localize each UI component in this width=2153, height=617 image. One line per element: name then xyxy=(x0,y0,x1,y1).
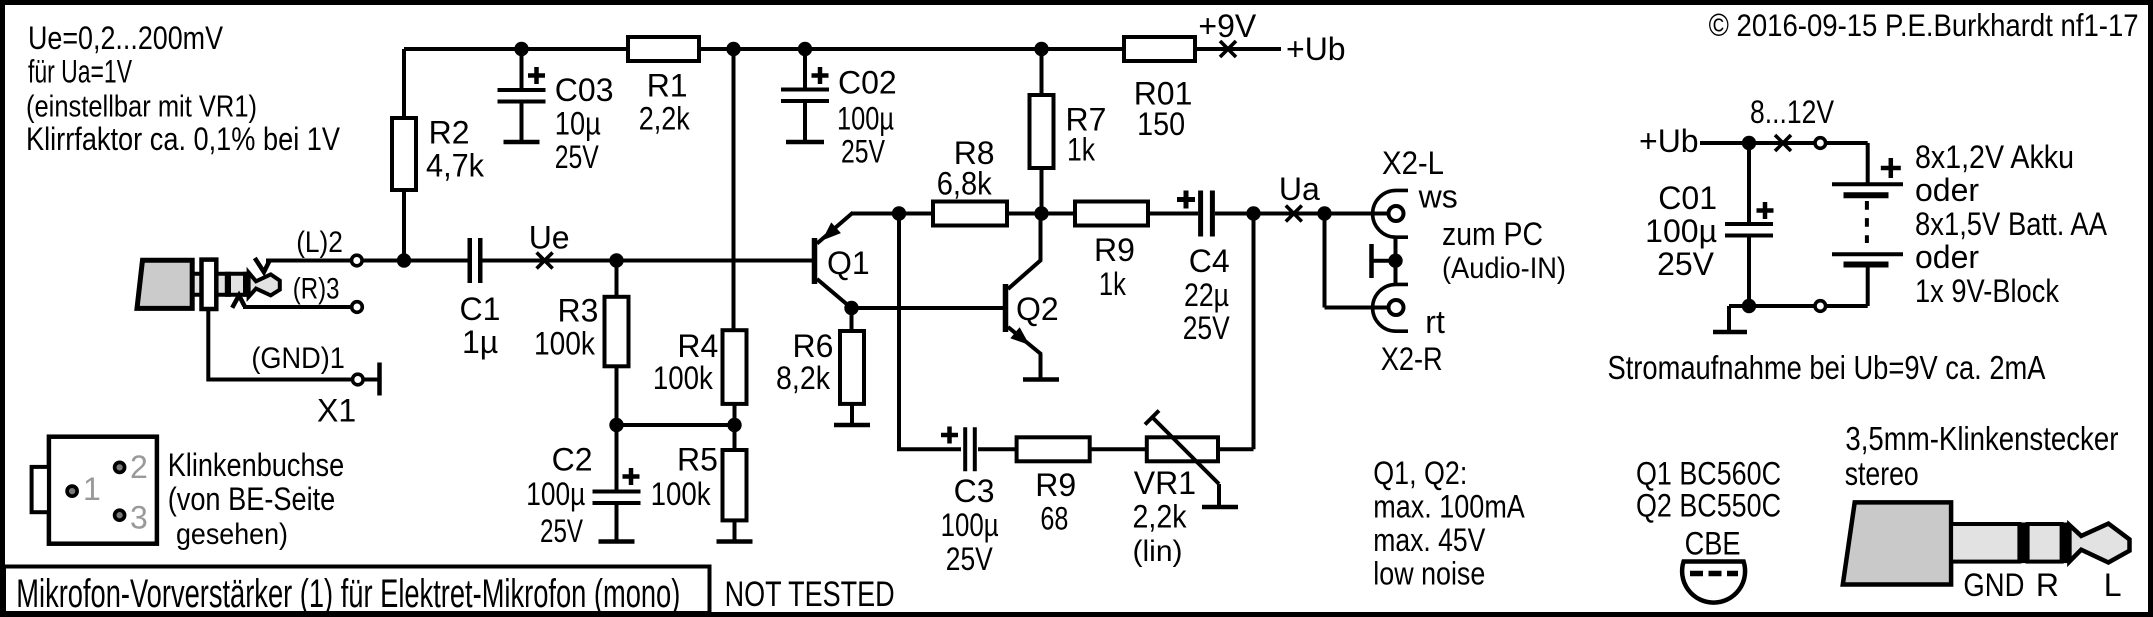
svg-text:Mikrofon-Vorverstärker (1) für: Mikrofon-Vorverstärker (1) für Elektret-… xyxy=(16,572,680,616)
svg-text:max. 45V: max. 45V xyxy=(1373,522,1486,558)
svg-text:Stromaufnahme bei Ub=9V ca. 2m: Stromaufnahme bei Ub=9V ca. 2mA xyxy=(1608,349,2046,386)
svg-text:ws: ws xyxy=(1418,179,1458,215)
svg-text:25V: 25V xyxy=(540,513,583,549)
svg-text:3,5mm-Klinkenstecker: 3,5mm-Klinkenstecker xyxy=(1845,420,2118,457)
svg-text:Ue=0,2...200mV: Ue=0,2...200mV xyxy=(28,20,224,56)
svg-text:2: 2 xyxy=(130,449,148,485)
svg-text:X2-R: X2-R xyxy=(1381,341,1443,377)
svg-text:(R)3: (R)3 xyxy=(293,273,340,306)
svg-text:8x1,5V Batt. AA: 8x1,5V Batt. AA xyxy=(1915,206,2108,242)
svg-text:Q2: Q2 xyxy=(1016,291,1059,327)
svg-text:3: 3 xyxy=(130,500,148,536)
svg-text:(GND)1: (GND)1 xyxy=(251,342,345,375)
svg-text:1x 9V-Block: 1x 9V-Block xyxy=(1915,273,2060,309)
svg-text:(von BE-Seite: (von BE-Seite xyxy=(168,481,336,517)
svg-text:X1: X1 xyxy=(317,393,356,429)
svg-text:1: 1 xyxy=(83,471,101,507)
svg-text:25V: 25V xyxy=(555,139,600,175)
svg-text:Q1 BC560C: Q1 BC560C xyxy=(1636,455,1781,491)
svg-text:zum PC: zum PC xyxy=(1442,216,1543,252)
svg-text:25V: 25V xyxy=(1657,246,1715,282)
svg-text:rt: rt xyxy=(1425,304,1445,340)
svg-text:2,2k: 2,2k xyxy=(1133,499,1188,535)
svg-text:+9V: +9V xyxy=(1198,8,1256,44)
svg-text:X2-L: X2-L xyxy=(1382,145,1444,181)
svg-text:100µ: 100µ xyxy=(526,476,585,512)
svg-text:+Ub: +Ub xyxy=(1286,31,1346,67)
svg-text:C2: C2 xyxy=(552,442,593,478)
svg-text:R9: R9 xyxy=(1035,467,1076,503)
svg-text:100k: 100k xyxy=(651,476,712,512)
svg-text:C4: C4 xyxy=(1189,243,1230,279)
svg-text:25V: 25V xyxy=(841,134,886,170)
svg-text:8...12V: 8...12V xyxy=(1750,94,1835,130)
svg-text:gesehen): gesehen) xyxy=(176,518,288,551)
svg-text:Ua: Ua xyxy=(1279,171,1320,207)
svg-text:8,2k: 8,2k xyxy=(776,360,831,396)
svg-text:NOT TESTED: NOT TESTED xyxy=(725,575,895,614)
svg-text:(L)2: (L)2 xyxy=(296,226,343,259)
svg-text:L: L xyxy=(2104,567,2122,603)
svg-text:10µ: 10µ xyxy=(555,105,601,141)
svg-text:C01: C01 xyxy=(1658,180,1717,216)
svg-text:25V: 25V xyxy=(946,541,994,577)
svg-text:C02: C02 xyxy=(838,65,897,101)
svg-text:Ue: Ue xyxy=(529,220,570,256)
svg-text:© 2016-09-15 P.E.Burkhardt nf1: © 2016-09-15 P.E.Burkhardt nf1-17 xyxy=(1709,7,2139,43)
svg-text:R: R xyxy=(2036,567,2059,603)
svg-text:1k: 1k xyxy=(1067,132,1096,168)
svg-text:4,7k: 4,7k xyxy=(426,148,485,184)
svg-text:stereo: stereo xyxy=(1845,455,1919,492)
svg-text:R4: R4 xyxy=(677,328,718,364)
svg-text:C1: C1 xyxy=(460,291,501,327)
svg-text:oder: oder xyxy=(1915,239,1979,275)
svg-text:2,2k: 2,2k xyxy=(639,101,691,137)
svg-text:Q1: Q1 xyxy=(827,245,870,281)
svg-text:Q1, Q2:: Q1, Q2: xyxy=(1373,455,1467,491)
svg-text:oder: oder xyxy=(1915,172,1979,208)
svg-text:100µ: 100µ xyxy=(1645,213,1717,249)
svg-text:100k: 100k xyxy=(534,326,596,362)
svg-text:100µ: 100µ xyxy=(837,100,894,136)
svg-text:VR1: VR1 xyxy=(1134,465,1196,501)
svg-text:R6: R6 xyxy=(793,328,834,364)
svg-text:C3: C3 xyxy=(954,473,995,509)
svg-text:150: 150 xyxy=(1137,106,1185,142)
svg-text:(einstellbar mit VR1): (einstellbar mit VR1) xyxy=(26,89,257,123)
svg-text:Q2 BC550C: Q2 BC550C xyxy=(1636,488,1781,524)
svg-text:CBE: CBE xyxy=(1685,526,1741,562)
svg-text:R1: R1 xyxy=(647,68,688,104)
svg-text:C03: C03 xyxy=(555,72,614,108)
svg-text:(lin): (lin) xyxy=(1133,535,1183,568)
svg-text:25V: 25V xyxy=(1183,310,1231,346)
svg-text:für Ua=1V: für Ua=1V xyxy=(28,54,132,90)
svg-text:Klirrfaktor ca. 0,1% bei 1V: Klirrfaktor ca. 0,1% bei 1V xyxy=(26,121,341,157)
svg-text:22µ: 22µ xyxy=(1184,277,1229,313)
svg-text:1µ: 1µ xyxy=(462,324,498,360)
svg-text:100k: 100k xyxy=(653,360,714,396)
svg-text:8x1,2V Akku: 8x1,2V Akku xyxy=(1915,139,2074,175)
svg-text:+Ub: +Ub xyxy=(1639,123,1699,159)
svg-text:1k: 1k xyxy=(1099,266,1127,302)
svg-text:R5: R5 xyxy=(677,442,718,478)
svg-text:100µ: 100µ xyxy=(941,507,999,543)
svg-text:low noise: low noise xyxy=(1373,556,1485,592)
svg-text:68: 68 xyxy=(1040,501,1068,537)
svg-text:Klinkenbuchse: Klinkenbuchse xyxy=(168,447,345,483)
svg-text:max. 100mA: max. 100mA xyxy=(1373,489,1525,525)
svg-text:GND: GND xyxy=(1963,567,2024,603)
svg-text:R9: R9 xyxy=(1094,232,1135,268)
svg-text:6,8k: 6,8k xyxy=(937,166,993,202)
svg-text:(Audio-IN): (Audio-IN) xyxy=(1442,252,1566,285)
svg-text:R3: R3 xyxy=(558,293,599,329)
svg-text:R2: R2 xyxy=(429,114,470,150)
